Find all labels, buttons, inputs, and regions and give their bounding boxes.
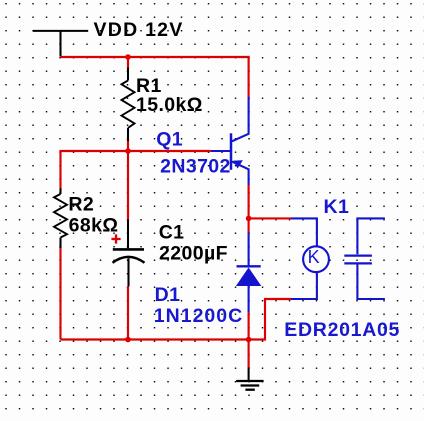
- svg-text:15.0kΩ: 15.0kΩ: [136, 94, 203, 116]
- svg-text:2N3702: 2N3702: [160, 156, 231, 178]
- svg-text:R2: R2: [68, 194, 94, 216]
- svg-text:VDD 12V: VDD 12V: [94, 19, 184, 41]
- svg-text:K1: K1: [324, 196, 350, 218]
- svg-text:1N1200C: 1N1200C: [154, 305, 243, 327]
- svg-text:D1: D1: [155, 284, 181, 306]
- svg-text:EDR201A05: EDR201A05: [284, 319, 400, 341]
- svg-text:Q1: Q1: [156, 129, 183, 151]
- svg-text:2200µF: 2200µF: [159, 242, 228, 264]
- svg-text:C1: C1: [159, 222, 185, 244]
- svg-text:68kΩ: 68kΩ: [69, 214, 119, 236]
- svg-text:K: K: [308, 247, 320, 267]
